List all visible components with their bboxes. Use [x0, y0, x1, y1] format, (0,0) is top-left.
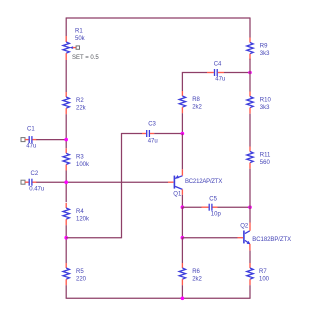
svg-text:47u: 47u: [26, 144, 36, 150]
wire right rail R10-R11: [249, 114, 251, 147]
Q1 emitter arrow (PNP): [175, 175, 179, 179]
svg-text:3k3: 3k3: [260, 51, 270, 57]
svg-text:100k: 100k: [76, 162, 90, 168]
wire left rail bottom segment: [65, 285, 67, 298]
junction C4 / right rail: [248, 71, 252, 75]
capacitor C5 10p: [202, 196, 222, 217]
R1 wiper terminal square: [76, 46, 79, 49]
junction C1 / left rail: [64, 138, 68, 142]
svg-text:C3: C3: [148, 122, 156, 128]
R1 wiper arrow: [70, 46, 74, 49]
svg-text:R7: R7: [259, 269, 267, 275]
Q2 emitter with arrow (NPN): [245, 240, 250, 243]
svg-text:R5: R5: [76, 269, 84, 275]
input terminal for C2: [21, 180, 25, 184]
resistor R4 120k: [63, 203, 90, 225]
transistor Q1 BC212AP/ZTX (PNP): [168, 169, 222, 197]
resistor R8 2k2: [179, 91, 202, 113]
junction C3 / middle rail: [181, 132, 185, 136]
resistor R5 220: [63, 263, 87, 285]
wire right rail R9-C4: [249, 59, 251, 73]
wire left rail R2-R3: [65, 114, 67, 148]
capacitor C1 47u: [21, 126, 37, 149]
svg-text:C1: C1: [27, 126, 35, 132]
resistor R3 100k: [63, 148, 90, 170]
svg-text:C5: C5: [209, 196, 217, 202]
wire right rail top segment: [249, 17, 251, 37]
junction Q2 base wire / middle rail: [181, 236, 185, 240]
Q1 base lead: [168, 181, 174, 183]
Q2 base bar: [243, 231, 245, 244]
wire right rail Q2 emitter-R7: [249, 251, 251, 263]
wire feedback horizontal: [66, 237, 121, 239]
svg-text:R10: R10: [260, 98, 272, 104]
svg-text:R9: R9: [260, 44, 268, 50]
svg-text:R11: R11: [260, 153, 271, 159]
wire middle rail bottom segment: [181, 285, 183, 298]
wire C4 to right rail: [224, 72, 250, 74]
svg-text:0.47u: 0.47u: [29, 187, 44, 193]
junction C5 / right rail: [248, 205, 252, 209]
Q2 base lead: [238, 237, 244, 239]
svg-text:2k2: 2k2: [192, 277, 202, 283]
capacitor C2 0.47u: [21, 171, 44, 192]
svg-text:R3: R3: [76, 154, 84, 160]
wire C2 to left rail and Q1 base: [36, 181, 168, 183]
wire middle rail Q1 collector to C5 junction: [181, 195, 183, 207]
wire right rail C4-R10: [249, 73, 251, 92]
capacitor C3 47u: [142, 122, 158, 145]
svg-text:3k3: 3k3: [260, 105, 270, 111]
svg-text:100: 100: [259, 277, 270, 283]
svg-text:C4: C4: [214, 62, 222, 68]
capacitor C4 47u: [207, 62, 225, 83]
Q1 collector: [175, 186, 182, 189]
wire middle rail R8-C3 junction: [181, 113, 183, 133]
junction C2 / left rail: [64, 180, 68, 184]
svg-text:560: 560: [260, 160, 271, 166]
wire right rail C5-Q2 collector: [249, 207, 251, 222]
svg-text:Q1: Q1: [173, 192, 182, 198]
svg-text:Q2: Q2: [240, 223, 249, 229]
wire top rail: [66, 17, 250, 19]
resistor R11 560: [247, 147, 271, 169]
wire left rail R3-C2: [65, 171, 67, 203]
wire middle rail Q2 base-R6: [181, 238, 183, 263]
wire C5 left: [182, 206, 201, 208]
svg-text:220: 220: [76, 277, 87, 283]
Q2 collector: [245, 231, 250, 234]
svg-text:2k2: 2k2: [192, 105, 202, 111]
junction left rail / feedback wire: [64, 236, 68, 240]
resistor R1 potentiometer 50k: [63, 29, 99, 61]
svg-text:C2: C2: [31, 171, 39, 177]
svg-text:10p: 10p: [211, 212, 222, 218]
wire middle rail C5-Q2 base junction: [181, 207, 183, 238]
resistor R10 3k3: [247, 92, 272, 114]
Q1 base bar: [173, 176, 175, 189]
wire middle rail C3-Q1 emitter: [181, 134, 183, 170]
junction middle rail / bottom rail: [181, 297, 185, 301]
wire left rail top segment: [65, 17, 67, 36]
wire feedback vertical: [121, 133, 123, 238]
svg-text:BC212AP/ZTX: BC212AP/ZTX: [185, 179, 222, 185]
resistor R9 3k3: [247, 38, 270, 60]
wire C1 to left rail: [36, 139, 66, 141]
svg-text:47u: 47u: [148, 139, 158, 145]
resistor R7 100: [247, 263, 270, 285]
svg-text:R1: R1: [75, 29, 83, 35]
svg-text:SET = 0.5: SET = 0.5: [72, 55, 99, 61]
svg-text:120k: 120k: [76, 217, 90, 223]
wire Q2 base horizontal: [182, 237, 237, 239]
svg-text:R4: R4: [76, 209, 84, 215]
wire left rail R1-R2: [65, 60, 67, 92]
input terminal for C1: [21, 138, 25, 142]
junction Q1 collector / C5 wire: [181, 205, 185, 209]
wire right rail bottom segment: [249, 285, 251, 298]
svg-text:BC182BP/ZTX: BC182BP/ZTX: [252, 237, 291, 243]
svg-text:47u: 47u: [215, 77, 225, 83]
resistor R6 2k2: [179, 263, 202, 285]
wire C3 right to middle rail: [154, 133, 182, 135]
wire C5 to right rail: [218, 206, 251, 208]
wire C3 left: [122, 133, 143, 135]
Q1 emitter lead: [181, 169, 183, 175]
svg-text:22k: 22k: [76, 106, 87, 112]
svg-text:R8: R8: [192, 97, 200, 103]
transistor Q2 BC182BP/ZTX (NPN): [238, 223, 292, 251]
svg-text:R6: R6: [192, 269, 200, 275]
wire bottom rail: [66, 297, 251, 299]
wire left rail R4-R5: [65, 225, 67, 263]
svg-text:50k: 50k: [75, 36, 86, 42]
wire right rail R11-C5 junction: [249, 169, 251, 208]
resistor R2 22k: [63, 92, 87, 114]
wire middle rail top corner to C4: [182, 73, 207, 92]
svg-text:R2: R2: [76, 98, 84, 104]
